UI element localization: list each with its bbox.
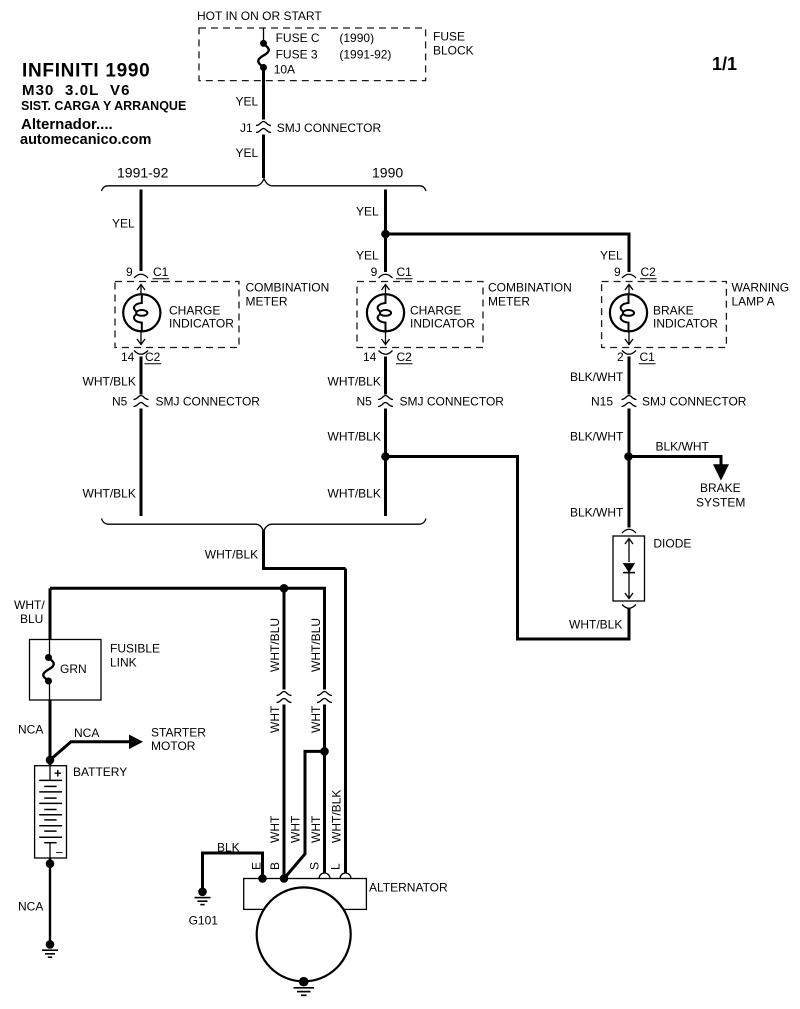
wire battery to ground (49, 858, 51, 943)
svg-text:C1: C1 (153, 265, 169, 279)
wire fuse to J1 (262, 69, 265, 120)
svg-text:BATTERY: BATTERY (73, 765, 127, 779)
wire N5 to junction (1990) (384, 409, 387, 517)
diode box (613, 536, 645, 601)
svg-text:COMBINATION: COMBINATION (246, 281, 330, 295)
connector C1 at warning lamp bottom (622, 351, 636, 355)
svg-text:(1991-92): (1991-92) (339, 48, 391, 62)
node battery negative (46, 859, 55, 868)
svg-text:YEL: YEL (236, 95, 259, 109)
ground G101 (195, 888, 211, 905)
svg-text:automecanico.com: automecanico.com (20, 132, 151, 148)
svg-text:WHT/BLK: WHT/BLK (328, 487, 381, 501)
SMJ connector N15 (622, 396, 637, 407)
diode internals arrow down (625, 573, 633, 599)
connector at diode top (622, 529, 636, 533)
connector at diode bottom (622, 605, 636, 609)
wire L to alternator (344, 569, 347, 873)
node B terminal (280, 874, 289, 883)
node junction 1990 branch to warning lamp (381, 230, 390, 239)
svg-text:BLOCK: BLOCK (433, 44, 474, 58)
svg-text:HOT IN ON OR START: HOT IN ON OR START (197, 9, 322, 23)
ground alternator (294, 977, 315, 995)
svg-text:YEL: YEL (356, 249, 379, 263)
node junction 1990 branch to diode return (381, 452, 390, 461)
svg-text:WHT/BLK: WHT/BLK (569, 618, 622, 632)
svg-text:CHARGE: CHARGE (410, 304, 461, 318)
svg-text:B: B (268, 862, 282, 870)
bottom brace merging branches (102, 519, 427, 532)
svg-text:FUSE 3: FUSE 3 (276, 48, 318, 62)
svg-text:BLK/WHT: BLK/WHT (570, 430, 624, 444)
svg-text:WHT/BLU: WHT/BLU (268, 618, 282, 672)
wire G101 to alternator E (203, 853, 263, 890)
wire C1 to N15 (628, 357, 631, 395)
svg-text:WHT/BLK: WHT/BLK (330, 790, 344, 843)
svg-text:WHT: WHT (268, 815, 282, 843)
node junction B wire (280, 584, 289, 593)
svg-text:CHARGE: CHARGE (169, 304, 220, 318)
node junction brake system (624, 452, 633, 461)
svg-text:GRN: GRN (60, 662, 87, 676)
top brace splitting J1 wire into 1991-92 and 1990 branches (102, 179, 427, 191)
svg-text:LINK: LINK (110, 656, 137, 670)
warning lamp A dashed box (602, 282, 727, 348)
wire N15 to brake junction (628, 409, 631, 528)
svg-text:BLK/WHT: BLK/WHT (570, 370, 624, 384)
ground battery (42, 940, 58, 957)
svg-text:WHT/BLK: WHT/BLK (83, 487, 136, 501)
fuse FUSE C / FUSE 3 10A (258, 40, 269, 71)
wire S branch to B terminal (284, 751, 325, 878)
svg-text:S: S (308, 862, 322, 870)
wire 1990 branch top (384, 190, 387, 273)
svg-text:STARTER: STARTER (151, 726, 206, 740)
arrow into charge indicator (1990) (382, 285, 390, 295)
svg-text:WHT/BLK: WHT/BLK (205, 548, 258, 562)
SMJ connector N5 (1990) (378, 396, 393, 407)
connector on S wire (317, 692, 332, 703)
svg-text:J1: J1 (240, 121, 253, 135)
svg-text:C2: C2 (641, 265, 657, 279)
svg-text:N5: N5 (112, 395, 128, 409)
svg-text:C2: C2 (397, 350, 413, 364)
svg-text:E: E (250, 862, 264, 870)
wire 1991-92 branch top (140, 190, 143, 272)
svg-text:L: L (329, 863, 343, 870)
svg-text:LAMP A: LAMP A (732, 295, 775, 309)
arrow into charge indicator (1991-92) (137, 285, 145, 295)
svg-text:BRAKE: BRAKE (700, 481, 741, 495)
svg-text:WHT: WHT (268, 705, 282, 733)
svg-text:INDICATOR: INDICATOR (169, 317, 234, 331)
connector C2 at meter bottom (1991-92) (134, 351, 148, 355)
connector C2 at warning lamp (622, 274, 636, 278)
svg-text:N15: N15 (591, 395, 613, 409)
wire stub into fuse (263, 29, 265, 42)
wire B upper (283, 588, 286, 689)
fusible link box (30, 640, 102, 701)
svg-text:BLK/WHT: BLK/WHT (656, 440, 710, 454)
svg-text:FUSE C: FUSE C (276, 31, 320, 45)
svg-text:SYSTEM: SYSTEM (696, 496, 745, 510)
svg-text:14: 14 (121, 350, 135, 364)
svg-text:14: 14 (363, 350, 377, 364)
svg-text:Alternador....: Alternador.... (21, 116, 113, 133)
svg-text:WARNING: WARNING (732, 281, 790, 295)
wire S lower (323, 705, 326, 874)
svg-text:SMJ CONNECTOR: SMJ CONNECTOR (156, 395, 261, 409)
brake indicator lamp (610, 294, 647, 331)
wire to starter motor with arrow (50, 735, 142, 760)
svg-text:BLK/WHT: BLK/WHT (570, 506, 624, 520)
svg-text:INDICATOR: INDICATOR (410, 317, 475, 331)
wire B lower (283, 705, 286, 879)
combination meter dashed box (1991-92) (115, 282, 239, 348)
svg-text:NCA: NCA (74, 726, 99, 740)
fusible link element GRN (43, 640, 54, 700)
svg-text:WHT/BLK: WHT/BLK (328, 430, 381, 444)
wire bus fusible link to B and S (50, 588, 325, 689)
connector C1 at combination meter (1990) (379, 274, 393, 278)
combination meter dashed box (1990) (357, 282, 483, 348)
svg-text:COMBINATION: COMBINATION (488, 281, 572, 295)
svg-text:ALTERNATOR: ALTERNATOR (369, 881, 448, 895)
svg-text:NCA: NCA (18, 900, 43, 914)
connector arc at S terminal (319, 873, 330, 878)
svg-text:YEL: YEL (600, 249, 623, 263)
charge indicator lamp (1991-92) (123, 294, 160, 331)
svg-text:1990: 1990 (372, 165, 403, 181)
svg-text:SIST. CARGA Y ARRANQUE: SIST. CARGA Y ARRANQUE (21, 99, 186, 113)
svg-text:METER: METER (246, 295, 288, 309)
svg-text:SMJ CONNECTOR: SMJ CONNECTOR (642, 395, 747, 409)
svg-text:WHT: WHT (309, 705, 323, 733)
arrow out of charge indicator (1990) (382, 332, 390, 345)
svg-text:(1990): (1990) (339, 31, 374, 45)
node E terminal (258, 874, 267, 883)
connector arc at L terminal (340, 873, 351, 878)
connector C1 at combination meter (1991-92) (134, 274, 148, 278)
svg-text:+: + (54, 766, 62, 781)
wire junction to diode return line (386, 457, 630, 640)
arrow out of brake indicator (625, 332, 633, 345)
alternator box (244, 879, 367, 910)
svg-text:WHT/BLU: WHT/BLU (309, 618, 323, 672)
battery (35, 766, 67, 861)
diode D symbol (623, 564, 635, 573)
svg-text:WHT/BLK: WHT/BLK (328, 375, 381, 389)
svg-text:INDICATOR: INDICATOR (653, 317, 718, 331)
svg-text:METER: METER (488, 295, 530, 309)
node junction starter branch (46, 756, 55, 765)
svg-text:INFINITI 1990: INFINITI 1990 (22, 61, 150, 82)
svg-text:MOTOR: MOTOR (151, 739, 196, 753)
wire C2 to N5 (1990) (384, 357, 387, 395)
svg-text:10A: 10A (274, 63, 295, 77)
svg-text:M30 3.0L V6: M30 3.0L V6 (22, 82, 131, 99)
connector C2 at meter bottom (1990) (379, 351, 393, 355)
svg-text:9: 9 (126, 265, 133, 279)
svg-text:C1: C1 (397, 265, 413, 279)
svg-text:FUSE: FUSE (433, 30, 465, 44)
svg-text:BLU: BLU (20, 612, 43, 626)
svg-text:YEL: YEL (236, 146, 259, 160)
svg-text:1991-92: 1991-92 (117, 165, 169, 181)
svg-text:WHT/: WHT/ (14, 598, 45, 612)
node junction on S wire (320, 747, 329, 756)
SMJ connector J1 (256, 122, 271, 133)
arrow out of charge indicator (1991-92) (137, 332, 145, 345)
svg-text:WHT: WHT (289, 815, 303, 843)
svg-text:FUSIBLE: FUSIBLE (110, 642, 160, 656)
svg-text:NCA: NCA (18, 723, 43, 737)
wire J1 to brace (262, 135, 265, 179)
alternator body circle (257, 887, 351, 981)
charge indicator lamp (1990) (367, 294, 404, 331)
wire junction to warning lamp branch (386, 234, 630, 272)
fuse block dashed box (199, 28, 426, 81)
connector on B wire (277, 692, 292, 703)
svg-text:C1: C1 (640, 350, 656, 364)
svg-text:SMJ CONNECTOR: SMJ CONNECTOR (277, 121, 382, 135)
wire to brake system with arrow (629, 457, 729, 480)
wire N5 to bottom brace (1991-92) (140, 409, 143, 517)
svg-text:−: − (56, 845, 64, 860)
arrow into brake indicator (625, 285, 633, 295)
svg-text:1/1: 1/1 (712, 54, 737, 74)
svg-text:WHT: WHT (309, 815, 323, 843)
svg-text:YEL: YEL (356, 205, 379, 219)
svg-text:9: 9 (371, 265, 378, 279)
svg-text:N5: N5 (357, 395, 373, 409)
SMJ connector N5 (1991-92) (134, 396, 149, 407)
svg-text:DIODE: DIODE (653, 537, 691, 551)
svg-text:WHT/BLK: WHT/BLK (83, 375, 136, 389)
diode internals arrow up (625, 539, 633, 563)
svg-text:BRAKE: BRAKE (653, 304, 694, 318)
wire bus to fusible link (49, 588, 52, 640)
wire brace output (264, 531, 346, 569)
svg-text:G101: G101 (189, 914, 219, 928)
svg-text:C2: C2 (145, 350, 161, 364)
svg-text:9: 9 (614, 265, 621, 279)
svg-text:YEL: YEL (112, 217, 135, 231)
wire fusible link to battery (49, 700, 52, 765)
wire C2 to N5 connector (1991-92) (140, 357, 143, 395)
svg-text:SMJ CONNECTOR: SMJ CONNECTOR (400, 395, 505, 409)
